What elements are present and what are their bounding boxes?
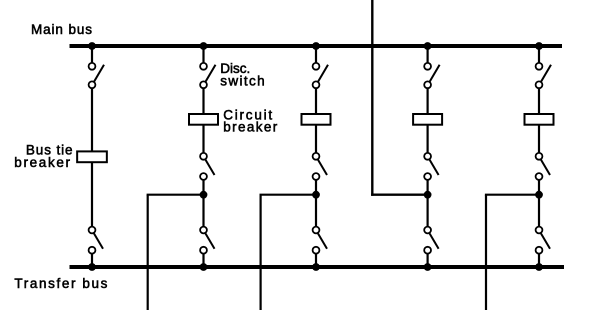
- wire: junction to lower switch (feeder 2): [315, 195, 317, 227]
- node: main bus junction dot (feeder 1 bay): [200, 42, 208, 50]
- disconnect switch: feeder 1 main-bus side: [200, 63, 207, 70]
- disconnect switch: feeder 1 transfer-bus side: [200, 227, 207, 234]
- disconnect switch: feeder 3 main-bus side: [536, 63, 543, 70]
- wire: middle switch to junction (incoming bay): [427, 180, 429, 195]
- wire: middle switch to junction (feeder 1): [202, 180, 204, 195]
- wire: feeder 2 outgoing line (crosses transfer bus): [260, 195, 262, 310]
- node: transfer bus junction dot (feeder 2 bay): [312, 263, 320, 271]
- svg-text:breaker: breaker: [14, 155, 70, 170]
- wire: feeder 3 tap horizontal: [485, 194, 539, 196]
- wire: feeder 1 stub from main bus: [202, 46, 204, 63]
- circuit breaker (incoming bay): [413, 114, 442, 125]
- wire: bus tie stub from main bus: [91, 46, 93, 63]
- disconnect switch: incoming bay transfer-bus side: [424, 227, 431, 234]
- disconnect switch: incoming bay below breaker: [424, 153, 431, 160]
- disconnect switch: feeder 2 main-bus side: [313, 63, 320, 70]
- disconnect switch: feeder 1 below breaker: [200, 153, 207, 160]
- wire: feeder 2 stub to transfer bus: [315, 254, 317, 267]
- wire: middle switch to junction (feeder 2): [315, 180, 317, 195]
- wire: feeder 1 outgoing line (crosses transfer bus): [147, 195, 149, 310]
- wire: circuit breaker to middle switch (feeder 2): [315, 125, 317, 153]
- node: main bus junction dot (feeder 2 bay): [312, 42, 320, 50]
- wire: incoming bay switch to circuit breaker: [427, 88, 429, 114]
- incoming line (vertical feed crossing main bus): [371, 0, 373, 196]
- disconnect switch: incoming bay main-bus side: [424, 63, 431, 70]
- svg-text:Transfer bus: Transfer bus: [14, 276, 107, 291]
- disconnect switch: bus tie main-bus side: [89, 63, 96, 70]
- node: feeder 2 tap junction dot: [312, 191, 320, 199]
- disconnect switch: bus tie transfer-bus side: [89, 227, 96, 234]
- transfer bus: [70, 265, 565, 269]
- wire: feeder 2 switch to circuit breaker: [315, 88, 317, 114]
- wire: incoming line horizontal to bay 4 junction: [371, 193, 428, 195]
- wire: feeder 2 stub from main bus: [315, 46, 317, 63]
- wire: incoming bay stub to transfer bus: [427, 254, 429, 267]
- node: main bus junction dot (incoming bay bay): [424, 42, 432, 50]
- circuit breaker (feeder 2): [302, 114, 331, 125]
- wire: circuit breaker to middle switch (incoming bay): [427, 125, 429, 153]
- wire: junction to lower switch (feeder 3): [538, 195, 540, 227]
- wire: feeder 2 tap horizontal: [260, 194, 317, 196]
- main bus: [70, 44, 563, 48]
- node: feeder 3 tap junction dot: [535, 191, 543, 199]
- node: transfer bus junction dot (bus tie bay): [88, 263, 96, 271]
- svg-text:breaker: breaker: [223, 120, 278, 135]
- wire: feeder 3 stub from main bus: [538, 46, 540, 63]
- wire: junction to lower switch (incoming bay): [427, 195, 429, 227]
- svg-text:Main bus: Main bus: [31, 22, 92, 37]
- node: main bus junction dot (feeder 3 bay): [535, 42, 543, 50]
- node: transfer bus junction dot (incoming bay bay): [424, 263, 432, 271]
- breaker: bus tie breaker: [77, 151, 107, 162]
- svg-text:switch: switch: [220, 74, 264, 89]
- wire: junction to lower switch (feeder 1): [202, 195, 204, 227]
- wire: feeder 1 tap horizontal: [147, 194, 204, 196]
- wire: bus tie switch to bus-tie breaker: [91, 88, 93, 151]
- wire: bus tie stub to transfer bus: [91, 254, 93, 267]
- wire: feeder 3 stub to transfer bus: [538, 254, 540, 267]
- node: transfer bus junction dot (feeder 3 bay): [535, 263, 543, 271]
- wire: circuit breaker to middle switch (feeder 1): [202, 125, 204, 153]
- node: main bus junction dot (bus tie bay): [88, 42, 96, 50]
- node: feeder 1 tap junction dot: [200, 191, 208, 199]
- wire: feeder 1 switch to circuit breaker: [202, 88, 204, 114]
- circuit breaker (feeder 3): [525, 114, 554, 125]
- node: transfer bus junction dot (feeder 1 bay): [200, 263, 208, 271]
- wire: bus-tie breaker to lower switch: [91, 162, 93, 226]
- wire: middle switch to junction (feeder 3): [538, 180, 540, 195]
- wire: feeder 3 switch to circuit breaker: [538, 88, 540, 114]
- disconnect switch: feeder 2 below breaker: [313, 153, 320, 160]
- disconnect switch: feeder 2 transfer-bus side: [313, 227, 320, 234]
- node: incoming bay tap junction dot: [424, 191, 432, 199]
- disconnect switch: feeder 3 transfer-bus side: [536, 227, 543, 234]
- wire: feeder 1 stub to transfer bus: [202, 254, 204, 267]
- disconnect switch: feeder 3 below breaker: [536, 153, 543, 160]
- wire: feeder 3 outgoing line (crosses transfer bus): [485, 195, 487, 310]
- wire: incoming bay stub from main bus: [427, 46, 429, 63]
- circuit breaker (feeder 1): [189, 114, 218, 125]
- wire: circuit breaker to middle switch (feeder 3): [538, 125, 540, 153]
